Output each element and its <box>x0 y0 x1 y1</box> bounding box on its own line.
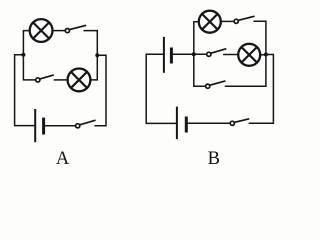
node: right junction of B <box>264 53 268 57</box>
switch S2 (middle branch) <box>36 75 53 82</box>
svg-text:A: A <box>56 149 70 169</box>
wire: lamp L3 left lead down through left junction to bottom-mid switch <box>194 22 206 87</box>
wire: battery to bottom switch <box>45 125 76 127</box>
lamp L4 (middle branch of B) <box>238 44 260 66</box>
node: left junction of B <box>192 52 196 56</box>
lamp L2 (middle branch) <box>68 69 91 92</box>
battery of A: short plate <box>42 119 45 133</box>
switch S3 (bottom of A) <box>76 120 95 128</box>
wire: S1 right contact, down right inner vertical, to lamp L2 right lead <box>84 31 97 80</box>
wire: right junction jog to outer-right vertical down to bottom switch <box>249 55 273 124</box>
wire: lamp L1 left lead down to left junction and on to middle switch <box>23 31 35 80</box>
battery B1 (left) long plate <box>163 38 165 72</box>
battery of A: long plate <box>34 110 36 141</box>
node: left junction of A <box>21 53 25 57</box>
battery B2 (bottom) short plate <box>185 118 188 131</box>
switch S7 (bottom of B) <box>230 119 248 125</box>
switch S4 (middle branch of B) <box>207 49 226 57</box>
wire: S4 right contact to lamp L4 <box>224 54 238 56</box>
switch S1 (top branch) <box>65 26 85 33</box>
wire: battery B1 to middle switch through junction <box>173 53 207 55</box>
lamp L3 (top branch of B) <box>199 11 221 33</box>
node: right junction of A <box>95 53 99 57</box>
switch S5 (top branch of B) <box>234 16 254 23</box>
wire: right outer loop of A down to bottom switch <box>95 55 106 126</box>
wire: left outer loop of A down to battery <box>15 55 35 126</box>
wire: lamp L1 right lead <box>53 30 65 32</box>
wire: lamp L3 right lead <box>221 20 233 22</box>
battery B2 (bottom) long plate <box>176 108 178 139</box>
lamp L1 (top branch, circle with X) <box>30 19 53 42</box>
wire: S5 right contact down inner-right vertical to bottom-mid switch lead <box>226 21 266 86</box>
wire: S2 right contact to lamp L2 <box>54 79 67 81</box>
wire: battery B2 to bottom switch <box>187 122 229 124</box>
wire: lamp L4 right lead to right junction <box>260 54 266 56</box>
wire: battery B1 to left outer loop down to bottom battery <box>146 54 176 123</box>
svg-text:B: B <box>208 149 220 169</box>
switch S6 (bottom-middle branch of B) <box>206 81 225 88</box>
battery B1 (left) short plate <box>170 49 173 62</box>
